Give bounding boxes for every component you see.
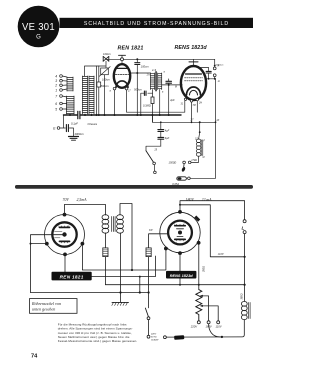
svg-text:Chassis: Chassis [88,122,98,126]
wire secondary top [120,204,132,271]
tube REN1821 pin f2 [125,87,128,90]
svg-text:500cm: 500cm [134,88,143,92]
terminal 3 [60,79,67,82]
wire socket1 bottom pin loop [65,256,155,277]
wire socket1 center to left rail [31,235,63,293]
socket1 pin top [63,213,67,217]
svg-text:4μF: 4μF [165,128,170,132]
output transformer secondary [117,215,124,234]
tube socket REN 1821 (from below) [45,215,85,255]
svg-text:100cm: 100cm [103,52,112,56]
svg-text:RENS 1823d: RENS 1823d [175,45,208,51]
svg-text:4000cm: 4000cm [75,132,85,136]
wire pin to rail [215,79,217,179]
ground [69,137,79,141]
tiny pin labels texture [110,72,220,160]
svg-text:SCHALTBILD UND STROM-SPANNUNGS: SCHALTBILD UND STROM-SPANNUNGS-BILD [84,21,229,27]
terminal 7 [60,95,67,98]
svg-text:unten gesehen: unten gesehen [32,306,55,311]
label 70V 2,5mA [63,198,88,203]
svg-text:5: 5 [55,107,57,111]
svg-text:H: H [218,79,220,83]
capacitor 100cm on anode node [135,59,140,115]
tube RENS1823d pins [184,98,186,100]
tube socket RENS 1823d (from below) [160,212,200,252]
mains terminal [164,336,167,339]
svg-text:350Ω: 350Ω [202,266,205,272]
title bar SCHALTBILD UND STROM-SPANNUNGS-BILD [60,18,254,28]
socket2 pin bottom [178,251,182,255]
wire coil to mains plug [191,156,198,162]
wire pin to bus [114,90,116,115]
terminal 6 [60,102,67,105]
socket1 pin left [45,242,49,246]
svg-text:100cm: 100cm [102,78,111,82]
wire socket2 bottom pin [179,255,181,285]
labels 0,05A 170 Ohm [172,159,197,186]
svg-text:Gl.40W: Gl.40W [151,339,159,342]
node anode tube1 [136,58,138,60]
resistor barrel under primary [103,233,108,285]
capacitor 500cm [141,90,153,116]
tube REN1821 anode bar [116,67,128,69]
wire socket2 anode to L jack [180,201,245,220]
field coil [196,139,203,156]
tube RENS 1823d envelope [181,66,206,100]
bus junctions [69,114,170,116]
wire grid tube2 [162,84,182,86]
electrolytic 4uF b [158,137,164,139]
antenna coil L1 lower [67,96,75,114]
wire L2 top to node [85,66,106,76]
wire secondary bottom to ground [120,233,122,302]
svg-text:380Ω: 380Ω [241,293,244,299]
padder box [99,67,110,77]
plug blob [181,166,186,172]
wire socket1 right pin loop [82,246,165,271]
svg-text:0,3MΩ: 0,3MΩ [143,103,151,107]
svg-text:70V: 70V [63,198,70,202]
svg-text:VE 301: VE 301 [22,22,55,33]
tube REN1821 cathode [116,81,128,88]
svg-text:2μF: 2μF [169,98,175,102]
wire screen branch [180,205,245,257]
mains terminal b [183,161,186,164]
top grid line node [106,58,215,60]
wire vertical x98.8 [98,66,100,115]
terminal E [57,115,73,136]
socket1 pin bottom [63,253,67,257]
wire output node [206,78,215,80]
terminal 4 [60,75,67,78]
resistor 0,3MOhm [151,93,154,122]
svg-text:2F: 2F [216,120,220,122]
terminal 1 [60,89,67,92]
chassis bus [64,111,182,118]
svg-text:L: L [242,226,245,232]
tube RENS1823d cathode [187,87,201,95]
socket2 pin top [178,210,182,214]
antenna coil L1 upper [67,77,73,91]
mains fuse (black) [174,335,184,340]
svg-text:180V: 180V [186,198,195,202]
mains switch [145,293,150,339]
svg-text:1500Ω: 1500Ω [169,160,177,164]
transformer core [112,217,115,232]
tube REN1821 grid (dashed) [115,74,128,76]
svg-text:500cm: 500cm [101,84,110,88]
socket2 anode side contact [194,216,200,222]
electrolytic 4uF a [158,122,164,146]
svg-text:2: 2 [54,84,57,88]
wire coil to mains rail [166,320,244,338]
tube REN 1821 envelope [114,64,130,88]
svg-text:Kessel-Messinstrumente sind.): Kessel-Messinstrumente sind.) gegen Mass… [58,339,138,343]
interstage transformer 1:4 secondary [158,73,162,90]
tube RENS 1823d top cap [189,59,198,66]
wire pin2 to bus [127,90,185,112]
svg-text:7: 7 [55,94,57,98]
wire socket1 left pin [31,243,45,245]
terminal 2 [60,84,67,87]
svg-text:2H: 2H [198,103,202,105]
label 180V 22mA [186,198,213,202]
svg-text:27: 27 [190,118,194,122]
socket2 pin right [197,241,201,245]
tap labels [190,325,222,329]
wire anode to transformer [130,72,150,74]
trimmer capacitor 100cm (butterfly) [103,56,109,68]
tube RENS1823d grids (dashed) [185,78,203,81]
wire bottom rail [31,292,149,294]
node feed [199,121,201,123]
tap 110V [202,306,218,321]
svg-text:220V: 220V [150,334,157,336]
terminal 5 [60,108,67,111]
output transformer primary [102,215,109,234]
svg-text:110V: 110V [215,325,221,329]
wire socket1 anode to transformer [65,204,106,215]
capacitor 500cm (box) [97,82,101,87]
labels A H [216,64,224,83]
wire fuse to rail [190,177,215,179]
wire coil L1 to bus [69,114,71,115]
model badge VE301 G [18,6,60,48]
tube REN1821 grid cap [119,55,126,64]
svg-text:RENS 1823d: RENS 1823d [170,273,194,278]
svg-text:3: 3 [55,79,57,83]
wire secondary to bus [159,90,161,116]
wire padder to bus [104,75,106,115]
speaker jack A [213,59,216,70]
jack L lower [243,231,246,234]
footnote paragraph [58,322,138,343]
wire pin3 [196,101,198,112]
svg-text:REN 1821: REN 1821 [118,46,144,52]
dropper resistor zigzag [196,290,202,321]
junction [168,84,170,86]
wire socket2 right pin to dropper [198,245,200,290]
wire mid rail [105,284,244,286]
tube RENS1823d anode bar [186,73,202,75]
tiny socket pin labels [58,224,186,245]
svg-text:M: M [175,87,177,89]
switch S1 [146,146,161,174]
socket1 pin right [81,242,85,246]
svg-text:6: 6 [55,102,57,106]
tap 180V [202,296,208,321]
svg-text:220V: 220V [190,325,197,329]
speaker jack H [213,74,216,79]
svg-text:74: 74 [31,354,38,360]
svg-text:110V: 110V [218,252,225,256]
wire vertical x96.5 [96,66,98,115]
jack L upper [243,220,246,223]
mains label [150,334,159,342]
ballast coil [241,301,250,319]
mains terminal a [188,161,191,164]
svg-text:0,1μF: 0,1μF [71,121,78,125]
wires coil L2 to bus [85,114,92,115]
junction [136,72,138,74]
svg-text:1: 1 [55,88,57,92]
svg-text:50 Hz: 50 Hz [151,337,158,339]
svg-text:5000cm: 5000cm [216,65,224,67]
svg-text:100cm: 100cm [141,64,150,68]
note box: Röhrensockel von unten gesehen [30,299,78,314]
wire jack down [244,234,246,302]
pin grid tube2 [180,84,182,86]
fuse 0,05A [177,177,187,180]
svg-text:4: 4 [55,74,57,78]
interstage transformer core [155,72,158,92]
svg-text:170Ω: 170Ω [191,159,197,162]
tuning coil L2 winding b [89,76,94,114]
tuning coil L2 winding a [83,76,88,114]
labels 4uF 4uF [165,128,176,164]
svg-text:7M: 7M [193,105,196,107]
heater resistor 6V [146,234,168,293]
capacitor 5000cm [199,68,211,79]
capacitor 2uF [166,79,172,115]
svg-text:G: G [36,35,41,41]
wire drop to bottom rail [139,277,141,293]
svg-text:Röhrensockel von: Röhrensockel von [31,301,61,306]
tiny value labels top schematic [101,52,175,107]
labels 0,1uF Chassis [71,121,98,126]
tube REN1821 pin f [113,87,116,90]
svg-text:REN 1821: REN 1821 [60,274,84,279]
svg-text:22 mA: 22 mA [202,198,213,202]
interstage transformer 1:4 primary [151,73,155,90]
label box RENS 1823d [166,271,196,279]
dropper terminal 220V [197,321,200,324]
svg-text:M: M [203,157,205,159]
svg-text:1:4: 1:4 [152,68,157,72]
svg-text:4μF: 4μF [165,136,170,140]
ground [112,302,129,305]
wire pin to rail2 [152,102,215,122]
wire tap to mains rail [209,324,222,337]
terminal labels 4 3 2 1 7 6 5 [54,74,57,111]
label box REN 1821 [52,272,92,281]
fuse terminal [188,177,191,180]
